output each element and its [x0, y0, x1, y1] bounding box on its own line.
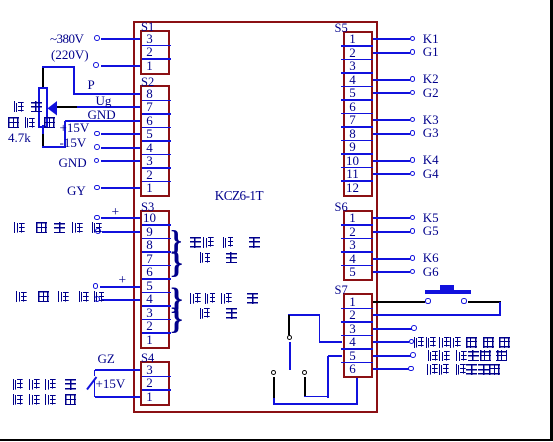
wire pot bottom horizontal	[42, 146, 66, 148]
S3 pin number 1	[137, 334, 163, 347]
S7 pin number 4	[340, 336, 366, 349]
S3 pin number 2	[137, 320, 163, 333]
wire S7.3	[373, 328, 412, 330]
relay pole (black)	[288, 315, 290, 335]
wire 220V to S1.1	[101, 65, 142, 67]
push button plunger	[440, 285, 454, 290]
wire G6	[373, 271, 411, 273]
connector S7 block outline	[343, 293, 373, 378]
label +15V	[60, 120, 90, 136]
S4 cell separator 1	[142, 376, 172, 378]
label K5	[423, 210, 439, 226]
wire button to elbow (black)	[468, 301, 501, 303]
label geiding (给定)	[13, 101, 24, 112]
label jieru feedback (接入)	[199, 252, 210, 263]
label -15V	[60, 135, 87, 151]
S6 cell separator 2	[341, 238, 373, 240]
wire S7.1 to button (black)	[373, 301, 426, 303]
label GZ	[98, 351, 115, 367]
S1 pin number 1	[137, 60, 163, 73]
S7 cell separator 5	[341, 362, 373, 364]
S6 pin number 1	[340, 212, 366, 225]
plus sign S3.5	[119, 272, 127, 288]
wire G4	[373, 173, 411, 175]
label +15V external	[96, 376, 126, 392]
wire Ug to S2.7	[77, 106, 142, 108]
label GND upper	[88, 107, 116, 123]
terminal current +	[93, 283, 99, 289]
wire K6	[373, 258, 411, 260]
label guzhang jiedian (故障结点)	[12, 394, 23, 405]
S2 pin number 4	[137, 142, 163, 155]
wire voltage- to S3.9	[102, 231, 142, 233]
S3 pin number 7	[137, 253, 163, 266]
terminal (220V)	[93, 62, 99, 68]
S4 pin number 1	[137, 391, 163, 404]
wire K4	[373, 160, 411, 162]
terminal fault middle	[409, 339, 415, 345]
S4 pin number 3	[137, 364, 163, 377]
switch GZ blade	[86, 376, 98, 391]
S6 pin number 2	[340, 226, 366, 239]
S7 pin number 2	[340, 309, 366, 322]
S5 pin number 10	[340, 155, 366, 168]
terminal K2	[410, 76, 416, 82]
S1 cell separator 2	[142, 58, 172, 60]
terminal +15V	[94, 131, 100, 137]
S5 pin number 12	[340, 182, 366, 195]
S7 label	[335, 285, 348, 295]
wire S7.4 fault mid	[373, 341, 410, 343]
S3 cell separator 6	[142, 292, 172, 294]
wire pot top horizontal	[42, 66, 76, 68]
label GND lower	[59, 155, 87, 171]
terminal G2	[410, 90, 416, 96]
terminal GND	[94, 158, 100, 164]
wire current- to S3.4	[101, 299, 142, 301]
relay NO contact	[271, 370, 276, 375]
wire voltage+ to S3.10	[101, 217, 142, 219]
push button bar	[425, 290, 472, 294]
wire GND branch vertical	[64, 121, 66, 148]
brace feedback upper	[171, 231, 182, 253]
label fault middle point (故障跳接点中点)	[413, 337, 424, 348]
S5 cell separator 5	[341, 99, 373, 101]
S6 pin number 3	[340, 239, 366, 252]
S5 pin number 1	[340, 33, 366, 46]
label (220V)	[51, 47, 89, 63]
S2 cell separator 2	[142, 113, 172, 115]
S5 pin number 8	[340, 128, 366, 141]
label KCZ6-1T	[215, 188, 263, 204]
wire NO corner	[273, 398, 275, 405]
relay NC stem (black)	[304, 377, 306, 397]
S5 cell separator 3	[341, 72, 373, 74]
wire pot top riser (black)	[42, 67, 44, 88]
S2 label	[141, 77, 154, 87]
wire NC riser	[327, 356, 329, 398]
S6 cell separator 3	[341, 251, 373, 253]
wire pot bottom stub	[42, 125, 44, 135]
wire S7.5 fault NC	[373, 355, 411, 357]
wire pot bottom riser (black)	[42, 134, 44, 148]
button contact right	[461, 298, 466, 303]
S3 cell separator 7	[142, 305, 172, 307]
S7 pin number 1	[340, 296, 366, 309]
label G3	[423, 125, 439, 141]
label K3	[423, 112, 439, 128]
S5 pin number 4	[340, 74, 366, 87]
S3 cell separator 8	[142, 319, 172, 321]
S5 pin number 3	[340, 60, 366, 73]
wire GZ to S4.3	[95, 369, 142, 371]
label G4	[423, 166, 439, 182]
label K2	[423, 71, 439, 87]
connector S6 block outline	[343, 210, 373, 282]
relay NO stem (black)	[273, 377, 275, 399]
label jie dianya jiance (接电压检测)	[14, 222, 25, 233]
S1 pin number 2	[137, 46, 163, 59]
connector S3 block outline	[140, 210, 170, 349]
wire relay elbow	[319, 315, 321, 342]
S3 cell separator 1	[142, 224, 172, 226]
connector S5 block outline	[343, 31, 373, 197]
label dianweiqi (电位器)	[8, 117, 19, 128]
S6 pin number 5	[340, 266, 366, 279]
terminal K6	[410, 255, 416, 261]
label P	[88, 77, 95, 93]
label waibu zonghe (外部综合)	[12, 379, 23, 390]
wire ~380V to S1.3	[101, 38, 142, 40]
screen right border bar	[550, 0, 553, 440]
S3 pin number 4	[137, 293, 163, 306]
S7 cell separator 1	[341, 308, 373, 310]
wire K5	[373, 217, 411, 219]
S6 cell separator 4	[341, 265, 373, 267]
S3 pin number 3	[137, 307, 163, 320]
wire G1	[373, 52, 411, 54]
label 4.7k	[8, 130, 31, 146]
wire riser to S7.6	[356, 376, 358, 405]
S7 cell separator 3	[341, 335, 373, 337]
screen bottom border bar	[0, 439, 553, 441]
terminal G1	[410, 49, 416, 55]
relay moving arm	[289, 342, 291, 370]
terminal K1	[410, 36, 416, 42]
wire to S4.1	[95, 396, 142, 398]
S6 cell separator 1	[341, 224, 373, 226]
S2 cell separator 6	[142, 167, 172, 169]
controller KCZ6-1T box	[133, 21, 379, 414]
terminal voltage -	[95, 228, 101, 234]
label K4	[423, 152, 439, 168]
wire relay to S7.4	[319, 341, 342, 343]
S6 pin number 4	[340, 253, 366, 266]
wire S7.6 fault NO	[373, 368, 410, 370]
wire current+ to S3.5	[100, 286, 142, 288]
wire GY to S2.1	[101, 187, 142, 189]
S5 pin number 11	[340, 168, 366, 181]
S7 pin number 3	[340, 323, 366, 336]
terminal G5	[410, 228, 416, 234]
S2 cell separator 5	[142, 154, 172, 156]
S5 pin number 6	[340, 101, 366, 114]
S7 pin number 5	[340, 350, 366, 363]
S3 pin number 10	[137, 212, 163, 225]
terminal GY	[94, 185, 100, 191]
relay NC contact	[302, 370, 307, 375]
S1 cell separator 1	[142, 45, 172, 47]
wire relay pole top	[288, 314, 320, 316]
terminal voltage +	[94, 215, 100, 221]
S7 cell separator 4	[341, 348, 373, 350]
label baohu xinhao (保护信号)	[190, 293, 201, 304]
S5 cell separator 4	[341, 86, 373, 88]
button contact left	[425, 298, 430, 303]
potentiometer wiper arrow	[47, 101, 58, 116]
wire NO bottom run	[273, 403, 358, 405]
wire GND to S2.6	[65, 120, 142, 122]
S2 cell separator 4	[142, 140, 172, 142]
wire K3	[373, 119, 411, 121]
label K6	[423, 250, 439, 266]
wire -15V to S2.4	[101, 147, 142, 149]
wire GZ stub down	[94, 370, 96, 376]
S5 pin number 2	[340, 47, 366, 60]
wire K2	[373, 79, 411, 81]
label jie dianliu jiance (接电流检测)	[16, 291, 27, 302]
S5 cell separator 11	[341, 180, 373, 182]
brace protection upper	[171, 287, 182, 310]
plus sign S3.10	[112, 204, 120, 220]
S2 pin number 3	[137, 155, 163, 168]
S5 cell separator 10	[341, 167, 373, 169]
S2 pin number 1	[137, 182, 163, 195]
S3 cell separator 3	[142, 251, 172, 253]
wire G2	[373, 92, 411, 94]
S2 cell separator 7	[142, 181, 172, 183]
S5 pin number 5	[340, 87, 366, 100]
wire GND to S2.3	[101, 160, 142, 162]
terminal -15V	[94, 144, 100, 150]
S3 pin number 9	[137, 226, 163, 239]
wire P to S2.8	[73, 93, 141, 95]
S6 label	[335, 202, 348, 212]
S2 pin number 2	[137, 169, 163, 182]
wire P elbow vertical	[73, 67, 75, 94]
S4 pin number 2	[137, 377, 163, 390]
brace feedback lower	[171, 251, 182, 274]
S5 cell separator 8	[341, 140, 373, 142]
S5 label	[335, 23, 348, 33]
label G6	[423, 264, 439, 280]
S2 pin number 6	[137, 115, 163, 128]
S3 pin number 8	[137, 239, 163, 252]
S3 cell separator 9	[142, 332, 172, 334]
S2 cell separator 1	[142, 100, 172, 102]
terminal K4	[410, 157, 416, 163]
terminal S7.3	[411, 325, 417, 331]
terminal ~380V	[94, 35, 100, 41]
terminal K3	[410, 117, 416, 123]
potentiometer 4.7k body	[38, 87, 48, 128]
S2 pin number 7	[137, 101, 163, 114]
S5 cell separator 6	[341, 113, 373, 115]
S2 pin number 8	[137, 88, 163, 101]
label GY	[67, 183, 86, 199]
S3 cell separator 5	[142, 278, 172, 280]
S3 cell separator 4	[142, 265, 172, 267]
terminal fault NO	[408, 366, 414, 372]
label fankui xinhao (反馈信号)	[190, 237, 201, 248]
label G5	[423, 223, 439, 239]
S3 pin number 5	[137, 280, 163, 293]
brace protection lower	[171, 307, 182, 330]
label G2	[423, 85, 439, 101]
wire button return vertical	[499, 302, 501, 316]
wire NC bottom run	[304, 396, 329, 398]
S5 cell separator 2	[341, 59, 373, 61]
wire NC to S7.5	[328, 355, 342, 357]
label fault NO point (故障跳常开点)	[427, 364, 438, 375]
S2 pin number 5	[137, 128, 163, 141]
relay common contact	[287, 335, 292, 340]
wire K1	[373, 38, 411, 40]
S5 pin number 7	[340, 114, 366, 127]
connector S4 block outline	[140, 361, 170, 406]
S5 cell separator 9	[341, 153, 373, 155]
wire GZ lower vertical	[94, 379, 96, 397]
S4 label	[141, 353, 154, 363]
label Ug	[96, 93, 112, 109]
wire return to S7.2	[373, 314, 501, 316]
label ~380V	[50, 31, 83, 47]
terminal G6	[410, 269, 416, 275]
S3 cell separator 2	[142, 238, 172, 240]
S4 cell separator 2	[142, 389, 172, 391]
S1 pin number 3	[137, 33, 163, 46]
wire G3	[373, 133, 411, 135]
terminal fault NC	[410, 352, 416, 358]
label jieru protection (接入)	[199, 308, 210, 319]
S5 cell separator 1	[341, 45, 373, 47]
label G1	[423, 44, 439, 60]
S5 pin number 9	[340, 141, 366, 154]
wire +15V to S2.5	[101, 133, 142, 135]
connector S2 block outline	[140, 85, 170, 197]
S7 pin number 6	[340, 363, 366, 376]
S3 pin number 6	[137, 266, 163, 279]
S2 cell separator 3	[142, 127, 172, 129]
label fault NC point (故障跳常闭点)	[427, 350, 438, 361]
label K1	[423, 31, 439, 47]
terminal K5	[410, 215, 416, 221]
terminal G4	[410, 171, 416, 177]
connector S1 block outline	[140, 30, 170, 75]
S5 cell separator 7	[341, 126, 373, 128]
wire G5	[373, 231, 411, 233]
S7 cell separator 2	[341, 321, 373, 323]
S1 label	[141, 22, 154, 32]
wire wiper to Ug (black part)	[57, 106, 78, 108]
terminal G3	[410, 130, 416, 136]
terminal current -	[94, 296, 100, 302]
S3 label	[141, 202, 154, 212]
